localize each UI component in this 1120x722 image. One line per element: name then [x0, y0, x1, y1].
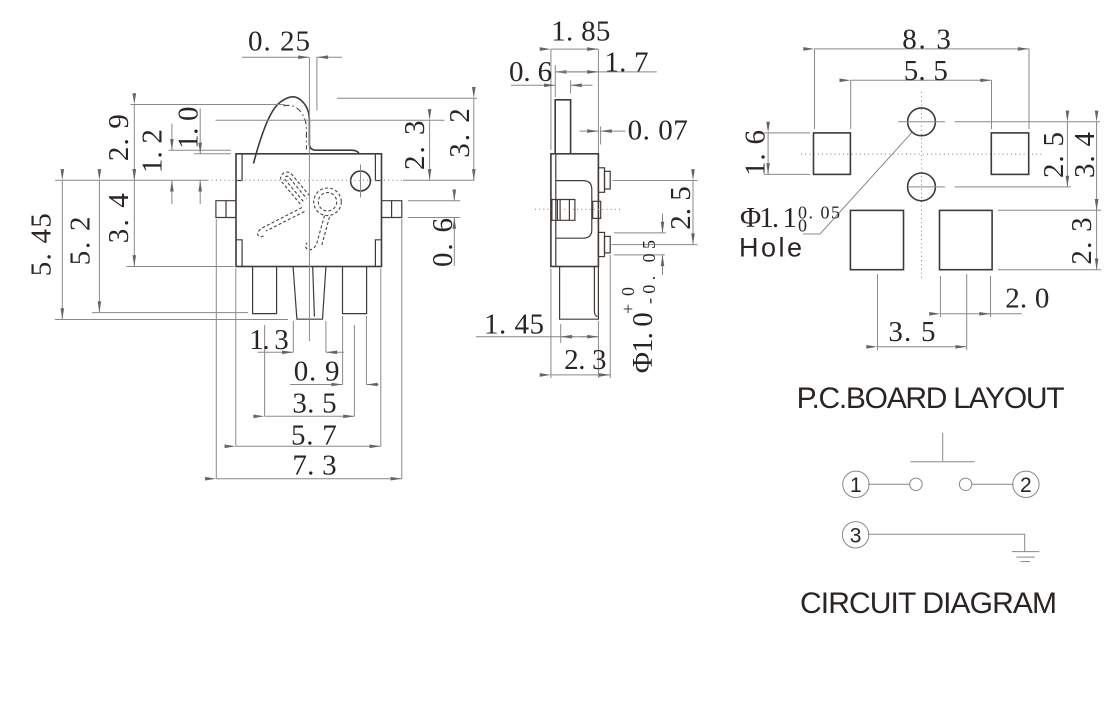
dim 3.5 — [265, 415, 355, 417]
ext line lever ledge (1.2) — [169, 149, 232, 151]
svg-text:3. 2: 3. 2 — [444, 108, 476, 158]
ext lever left up (1.7/0.6) — [554, 65, 556, 97]
svg-text:3. 5: 3. 5 — [292, 388, 336, 420]
ext lines right dims — [955, 121, 1100, 123]
ext line body bottom left (3.4) — [127, 266, 235, 268]
svg-text:+0: +0 — [618, 287, 638, 314]
dim 3.2 right — [473, 98, 475, 180]
dim 0.9 (arrows outside) — [290, 384, 343, 386]
svg-text:1. 7: 1. 7 — [604, 46, 648, 78]
ext lever right (0.6) — [570, 80, 572, 93]
svg-text:5. 45: 5. 45 — [26, 213, 58, 276]
svg-text:5. 7: 5. 7 — [291, 419, 337, 451]
hole lower — [908, 173, 936, 201]
datum extension line right — [403, 179, 475, 181]
ext body left up (1.85) — [550, 49, 552, 150]
left side tab — [216, 201, 236, 218]
ext lines 3.5 (pcb) — [877, 274, 879, 350]
terminal pin 3 (right) — [343, 267, 367, 314]
ext post centers right — [613, 180, 698, 182]
spring arm left (hidden) — [258, 208, 302, 237]
SIDE VIEW GROUP — [476, 15, 698, 378]
body inner wall line — [555, 154, 557, 267]
svg-text:Hole: Hole — [739, 233, 802, 263]
dim 1.2 (arrows outside) — [171, 124, 173, 151]
svg-text:1. 6: 1. 6 — [739, 130, 771, 176]
wire 3 — [868, 534, 1025, 551]
svg-text:5. 5: 5. 5 — [904, 55, 948, 87]
svg-text:1. 85: 1. 85 — [551, 15, 610, 47]
svg-text:Φ1. 0: Φ1. 0 — [627, 312, 659, 373]
side tab (front) — [552, 200, 575, 221]
ext line pins bottom (5.2) — [92, 312, 248, 314]
svg-text:7. 3: 7. 3 — [292, 450, 336, 482]
terminal 2 circle — [1013, 471, 1039, 497]
terminal pin 2 (middle, tapered) — [293, 267, 326, 319]
svg-text:0. 07: 0. 07 — [628, 115, 688, 147]
lower terminal post — [598, 232, 604, 256]
pad 1 (top-left) — [814, 133, 851, 175]
datum extension line left — [55, 179, 208, 181]
hole upper — [908, 108, 936, 136]
dim 8.3 — [815, 48, 1030, 50]
ext pin right down — [597, 321, 599, 378]
spring hairpin loop inner (hidden) — [285, 176, 307, 201]
svg-text:P.C.BOARD LAYOUT: P.C.BOARD LAYOUT — [797, 382, 1065, 415]
lever bar — [555, 100, 570, 154]
dim 2.5 — [692, 181, 694, 245]
corner seam bar bottom-right — [375, 240, 381, 267]
svg-text:0. 25: 0. 25 — [248, 26, 310, 58]
svg-text:2. 3: 2. 3 — [1066, 217, 1098, 264]
svg-text:2. 3: 2. 3 — [399, 121, 431, 171]
ext line lever front top (2.3 upper) — [216, 119, 445, 121]
FRONT VIEW GROUP — [26, 26, 478, 482]
svg-text:5. 2: 5. 2 — [64, 217, 96, 266]
svg-text:1. 3: 1. 3 — [249, 324, 289, 356]
ext pin left edge (1.45) — [560, 324, 562, 343]
dim 2.5 (pcb) — [1066, 122, 1068, 187]
ext body left down (2.3) — [550, 269, 552, 379]
bottom pin — [560, 267, 599, 320]
dim 5.2 — [98, 180, 100, 312]
svg-text:0. 6: 0. 6 — [509, 56, 552, 88]
dim 5.45 — [61, 180, 63, 319]
dim 1.6 — [767, 133, 769, 175]
svg-text:2. 5: 2. 5 — [1038, 132, 1070, 178]
svg-text:2. 5: 2. 5 — [665, 186, 697, 230]
pad 4 (bottom-right) — [940, 210, 993, 269]
horizontal centerline dash-dot — [801, 153, 1042, 155]
vertical centerline dash-dot — [921, 92, 923, 279]
body molded recess — [556, 181, 592, 239]
ground symbol — [1012, 551, 1039, 553]
dim 0.6 (arrows outside) — [511, 84, 555, 86]
ext line body top (1.0) — [194, 153, 231, 155]
pad 2 (top-right) — [991, 133, 1028, 175]
ext lines top dims — [814, 49, 816, 129]
CIRCUIT DIAGRAM GROUP — [800, 433, 1057, 620]
svg-text:2. 0: 2. 0 — [1005, 283, 1049, 315]
dim 0.05 (arrows outside) — [662, 214, 664, 233]
svg-text:1. 0: 1. 0 — [173, 107, 205, 150]
terminal 1 circle — [843, 471, 869, 497]
dim 1.3 (arrows outside) — [258, 351, 294, 353]
ext line lever hidden top (2.9) — [131, 104, 286, 106]
ext body right up (1.85/0.07) — [597, 49, 599, 153]
corner seam bar bottom-left — [237, 240, 243, 267]
corner seam bar top-left — [237, 154, 243, 181]
contact circle left — [910, 478, 922, 490]
spring arm lower (hidden) — [306, 216, 325, 250]
svg-text:3. 5: 3. 5 — [888, 316, 935, 348]
switch body outline — [236, 154, 382, 267]
push button bar — [911, 461, 975, 463]
hole leader line — [803, 133, 912, 234]
dim 1.0 (arrows outside) — [199, 108, 201, 153]
ext post cap face down (2.3) — [609, 255, 611, 378]
terminal pin 1 (left) — [253, 267, 277, 314]
vertical centerline — [308, 57, 310, 341]
body outline — [551, 154, 599, 267]
horizontal centerline dotted — [535, 208, 622, 210]
dim 2.3 (pcb) — [1096, 210, 1098, 270]
dim 5.5 — [851, 79, 992, 81]
svg-text:2. 9: 2. 9 — [103, 114, 135, 161]
svg-text:3: 3 — [850, 524, 862, 547]
lever hidden edge dash-dot — [284, 105, 307, 149]
ext lines below pins — [264, 325, 266, 416]
svg-text:0. 6: 0. 6 — [427, 218, 459, 267]
dim 2.3 (side) — [551, 374, 610, 376]
ext lines 2.0 — [939, 276, 941, 317]
dim 2.3 right — [429, 120, 431, 180]
pivot circle — [351, 171, 371, 191]
svg-text:-0. 05: -0. 05 — [639, 240, 659, 304]
svg-text:2: 2 — [1020, 474, 1032, 497]
ext nub face (0.07) — [600, 126, 602, 144]
horizontal datum dotted line — [208, 179, 404, 181]
svg-text:3. 4: 3. 4 — [1069, 132, 1101, 179]
ext line peak (3.2) — [337, 97, 477, 99]
upper terminal post — [598, 168, 604, 193]
dim 1.7 — [555, 71, 656, 73]
svg-text:CIRCUIT DIAGRAM: CIRCUIT DIAGRAM — [800, 587, 1057, 620]
dim 1.45 — [476, 336, 598, 338]
terminal 3 circle — [842, 522, 868, 548]
dim 1.85 — [551, 48, 599, 50]
corner seam bar top-right — [375, 154, 381, 181]
dim 0.07 (arrows outside) — [580, 130, 599, 132]
push button stem — [942, 433, 944, 461]
dim 7.3 — [216, 478, 401, 480]
right nub — [593, 201, 601, 218]
hole center ticks — [898, 121, 945, 123]
spring coil (hidden) — [314, 188, 342, 216]
svg-text:0. 9: 0. 9 — [294, 356, 340, 388]
dim 0.25 top — [316, 57, 318, 110]
svg-text:2. 3: 2. 3 — [564, 344, 606, 376]
dim 5.7 — [236, 445, 381, 447]
svg-text:3. 4: 3. 4 — [103, 193, 135, 244]
pad 3 (bottom-left) — [850, 210, 903, 269]
ext line mid pin bottom (5.45) — [55, 319, 288, 321]
ext lines 1.6 — [764, 132, 810, 134]
pivot circle center tick — [360, 165, 362, 198]
dim 0.6 (arrows outside) — [453, 190, 455, 200]
dim 3.4 — [133, 180, 135, 266]
dim 2.0 — [940, 313, 990, 315]
wire 2 — [971, 483, 1013, 485]
svg-text:1: 1 — [850, 474, 862, 497]
dim 3.5 (pcb) — [878, 346, 967, 348]
dim 2.9 — [133, 105, 135, 181]
svg-text:1. 45: 1. 45 — [484, 309, 544, 341]
svg-text:1. 2: 1. 2 — [137, 129, 169, 173]
PCB LAYOUT GROUP — [739, 24, 1101, 416]
svg-text:8. 3: 8. 3 — [902, 24, 951, 56]
svg-text:Φ1. 1: Φ1. 1 — [740, 202, 797, 234]
ext lines tab (0.6) — [408, 200, 461, 202]
spring hairpin loop outer (hidden) — [281, 172, 310, 204]
actuator lever outline — [254, 97, 360, 164]
wire 1 — [868, 483, 910, 485]
dim 3.4 (pcb) — [1096, 122, 1098, 210]
contact circle right — [959, 478, 971, 490]
right side tab — [382, 201, 402, 218]
